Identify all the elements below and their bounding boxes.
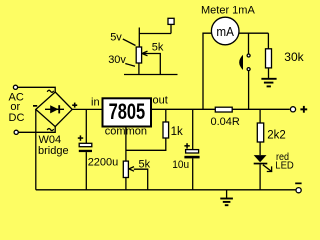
switch branch wire bottom: [248, 71, 250, 110]
inset potentiometer 5k body: [136, 41, 164, 74]
svg-text:0.04R: 0.04R: [211, 116, 240, 128]
label 30v with leader: [108, 54, 135, 66]
svg-text:30k: 30k: [284, 50, 304, 64]
svg-text:or: or: [10, 101, 20, 113]
svg-text:Meter 1mA: Meter 1mA: [201, 4, 255, 16]
wire bridge minus to ground rail: [35, 109, 37, 189]
resistor 0.04R shunt: [211, 107, 240, 128]
terminal AC input bottom: [14, 130, 18, 134]
inset baseline wire: [124, 74, 178, 76]
terminal output minus: [295, 183, 301, 193]
svg-text:mA: mA: [216, 24, 234, 39]
label W04 bridge: [38, 134, 69, 157]
label ~ bottom: [47, 129, 54, 131]
label ~ top: [47, 90, 54, 92]
label 5v with leader: [110, 31, 135, 45]
ground rail bottom: [36, 189, 296, 191]
terminal AC input top: [13, 85, 17, 89]
LED red: [254, 152, 294, 190]
wire common down: [125, 127, 127, 162]
svg-text:7805: 7805: [109, 99, 146, 124]
ground symbol center: [220, 190, 233, 205]
svg-text:2200u: 2200u: [88, 156, 119, 168]
svg-text:DC: DC: [9, 112, 25, 124]
label plus on bridge: [72, 103, 77, 108]
svg-text:out: out: [153, 94, 168, 106]
svg-text:30v: 30v: [108, 54, 126, 66]
svg-text:LED: LED: [275, 160, 294, 171]
resistor 2k2: [257, 109, 285, 155]
wire meter left to rail: [203, 33, 211, 109]
ground symbol under 30k: [261, 79, 276, 87]
switch branch wire top: [248, 33, 250, 54]
switch contact bottom: [247, 68, 250, 71]
wire rail right of shunt: [232, 108, 290, 110]
capacitor 2200u: [78, 109, 118, 190]
svg-text:1k: 1k: [171, 126, 183, 138]
regulator U1 7805: [91, 94, 168, 137]
diode inside bridge: [45, 105, 64, 113]
svg-text:5k: 5k: [152, 41, 164, 53]
switch contact top: [247, 54, 250, 57]
inset pot terminal square: [139, 18, 174, 47]
wire bridge plus to regulator: [72, 108, 102, 110]
svg-text:5k: 5k: [139, 158, 151, 170]
meter M1 1mA: [211, 17, 239, 45]
svg-text:in: in: [91, 96, 100, 108]
wire regulator out rail: [151, 108, 215, 110]
switch lever blob: [239, 55, 243, 70]
svg-text:bridge: bridge: [38, 145, 69, 157]
svg-text:5v: 5v: [110, 31, 122, 43]
svg-text:2k2: 2k2: [267, 129, 286, 141]
potentiometer 5k lower: [123, 158, 150, 189]
wire meter right: [239, 32, 268, 34]
bridge rectifier W04 diamond: [36, 92, 72, 127]
label AC or DC: [9, 91, 25, 124]
wire input top: [18, 87, 56, 92]
label minus on bridge: [33, 105, 37, 107]
wire input bottom: [18, 126, 55, 132]
svg-text:10u: 10u: [172, 159, 189, 171]
wire common to 1k bottom: [126, 138, 166, 150]
resistor 30k: [266, 33, 305, 79]
terminal output plus: [290, 106, 307, 113]
capacitor 10u: [172, 109, 199, 190]
resistor 1k: [163, 109, 183, 138]
